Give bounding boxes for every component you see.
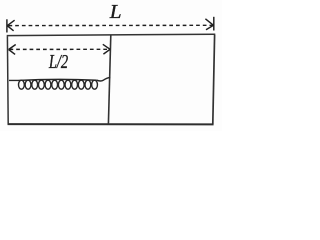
coil loops xyxy=(19,80,25,89)
svg-text:L/2: L/2 xyxy=(48,51,68,73)
label L/2 xyxy=(48,51,68,73)
svg-text:L: L xyxy=(109,2,122,23)
wire hook to divider wall xyxy=(97,77,111,81)
wire from left wall over coil xyxy=(9,78,97,81)
dimension arrow L xyxy=(7,17,214,33)
divider wall xyxy=(108,35,110,124)
coil spring xyxy=(9,77,110,89)
label L xyxy=(109,2,122,23)
container rectangle xyxy=(7,34,216,124)
dimension arrow L/2 xyxy=(9,44,111,54)
